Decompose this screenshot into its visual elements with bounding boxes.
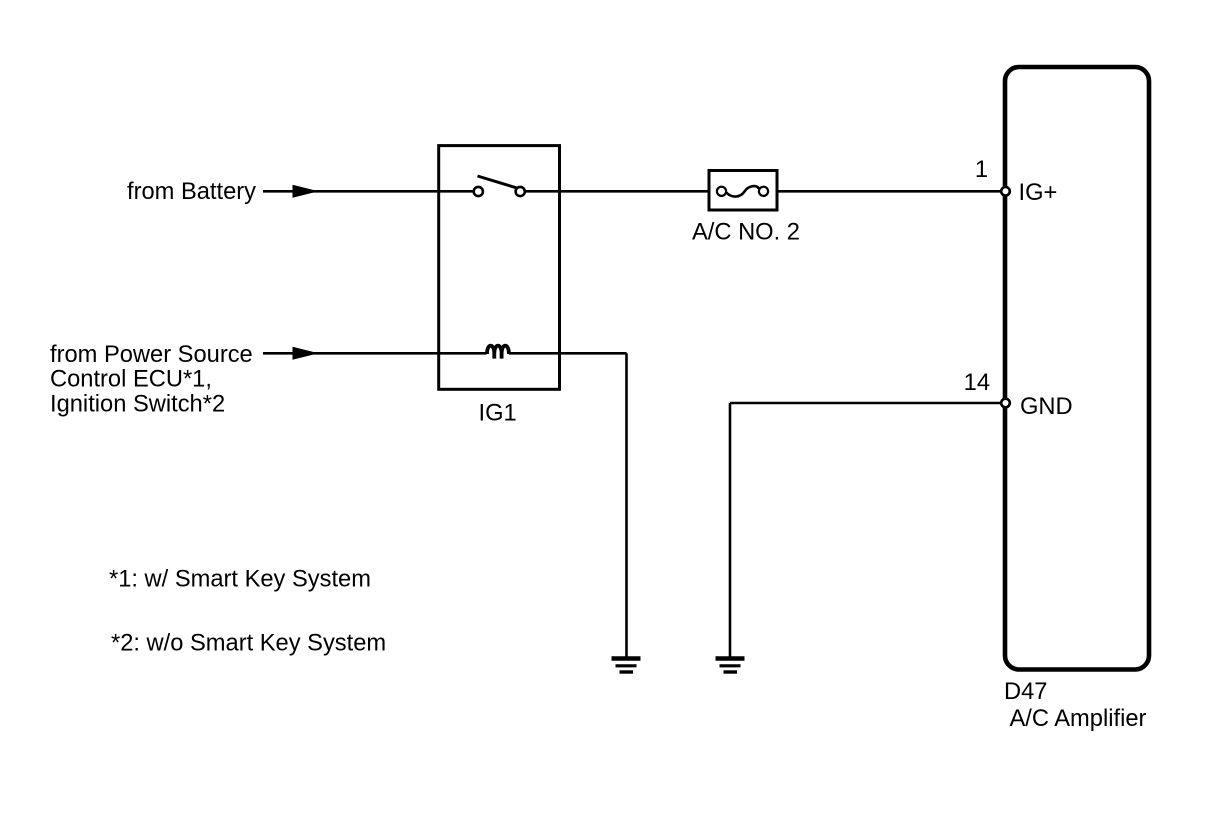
svg-text:14: 14 <box>964 370 990 396</box>
svg-text:*1: w/ Smart Key System: *1: w/ Smart Key System <box>109 566 371 592</box>
svg-text:Ignition Switch*2: Ignition Switch*2 <box>50 391 225 417</box>
svg-text:GND: GND <box>1020 394 1073 420</box>
svg-text:A/C NO. 2: A/C NO. 2 <box>692 220 800 246</box>
svg-text:from Battery: from Battery <box>127 179 256 205</box>
svg-text:Control ECU*1,: Control ECU*1, <box>50 367 212 393</box>
svg-text:*2: w/o Smart Key System: *2: w/o Smart Key System <box>111 631 386 657</box>
svg-text:A/C Amplifier: A/C Amplifier <box>1010 706 1147 732</box>
svg-text:1: 1 <box>975 157 988 183</box>
svg-text:from Power Source: from Power Source <box>50 342 253 368</box>
svg-text:IG1: IG1 <box>479 401 517 427</box>
svg-text:D47: D47 <box>1004 679 1047 705</box>
svg-text:IG+: IG+ <box>1019 180 1058 206</box>
